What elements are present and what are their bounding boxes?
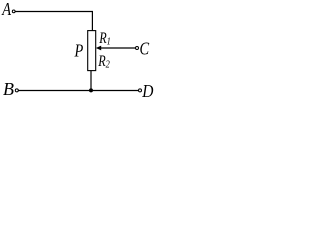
svg-text:C: C	[140, 38, 151, 59]
terminal B	[15, 89, 18, 92]
terminal C	[136, 47, 139, 50]
svg-text:R2: R2	[97, 53, 110, 71]
wire B to D	[19, 90, 139, 92]
svg-text:D: D	[141, 81, 153, 99]
svg-text:A: A	[1, 0, 11, 19]
svg-text:P: P	[74, 40, 84, 61]
svg-text:B: B	[3, 79, 14, 99]
terminal A	[12, 10, 15, 13]
svg-text:R1: R1	[98, 29, 110, 47]
wiper arrowhead	[96, 46, 101, 51]
terminal D	[139, 89, 142, 92]
potentiometer P body	[88, 31, 96, 71]
wiper wire to C	[99, 47, 135, 49]
wire potentiometer bottom lead	[90, 71, 92, 91]
wire A to potentiometer top	[16, 12, 93, 31]
junction dot	[89, 88, 93, 92]
